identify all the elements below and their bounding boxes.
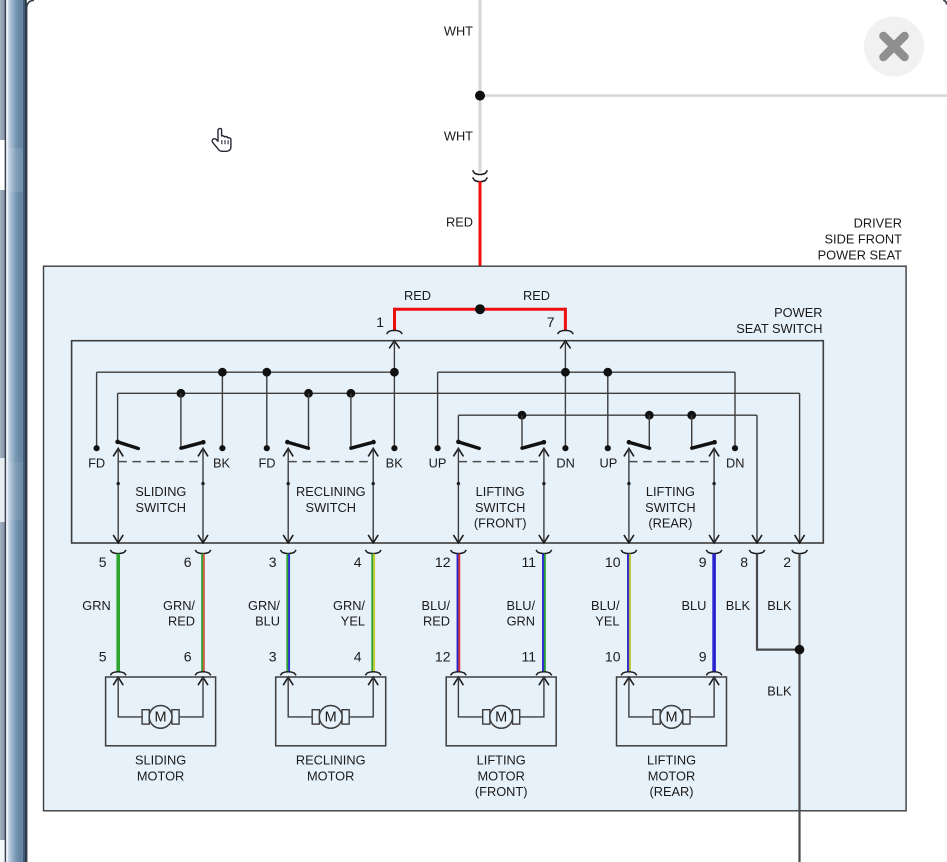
svg-text:10: 10 [605, 554, 621, 570]
terminal UP front [435, 445, 441, 451]
wire UP rear drop [607, 372, 609, 448]
reclining motor [276, 677, 386, 746]
connector pin 6 at motor [195, 672, 211, 676]
lifting motor rear [617, 677, 727, 746]
terminal BK sliding [219, 445, 225, 451]
svg-text:11: 11 [521, 649, 536, 665]
wire GRN pin 5 [116, 554, 120, 672]
wire FD reclining drop [266, 372, 268, 448]
reclining blade BK [351, 393, 376, 448]
junction bus E x692 [687, 411, 696, 420]
switch pole wire pin 6 [198, 448, 208, 543]
label RECLINING MOTOR [296, 753, 366, 784]
terminal DN front [562, 445, 568, 451]
svg-text:12: 12 [435, 554, 451, 570]
svg-text:SLIDING: SLIDING [135, 753, 186, 768]
sliding motor [106, 677, 216, 746]
svg-text:1: 1 [376, 314, 384, 330]
svg-text:M: M [325, 710, 337, 726]
svg-text:RED: RED [168, 614, 195, 629]
wire FD sliding drop [96, 372, 98, 448]
junction bus A x267 [262, 368, 271, 377]
junction bus B x308 [304, 389, 313, 398]
label LIFTING SWITCH (REAR) [645, 484, 695, 531]
svg-text:FD: FD [88, 456, 105, 471]
svg-text:BLU: BLU [255, 614, 280, 629]
label wire pin 6 [163, 598, 195, 629]
power seat switch box [72, 341, 824, 543]
svg-text:GRN/: GRN/ [248, 598, 280, 613]
svg-text:SLIDING: SLIDING [135, 484, 186, 499]
wire BLK pin 8 [757, 554, 800, 650]
wire BK sliding drop [221, 372, 223, 448]
wire pin 8 internal [756, 415, 758, 543]
switch pole wire pin 9 [709, 448, 719, 543]
wire DN rear drop [734, 372, 736, 448]
svg-text:M: M [665, 710, 677, 726]
lifting rear blade DN [692, 415, 717, 448]
svg-text:BLU/: BLU/ [591, 598, 620, 613]
linkage sliding switch [118, 461, 203, 463]
label wire pin 12 [422, 598, 451, 629]
wire RED bus to pin 1 [395, 308, 481, 311]
svg-text:10: 10 [605, 649, 621, 665]
svg-text:GRN/: GRN/ [163, 598, 195, 613]
junction BLK splice [795, 645, 805, 655]
label LIFTING MOTOR FRONT [475, 753, 528, 799]
svg-text:12: 12 [435, 649, 451, 665]
svg-text:BLK: BLK [767, 598, 792, 613]
svg-text:RED: RED [404, 288, 431, 303]
reclining blade FD [285, 393, 308, 448]
svg-text:BLK: BLK [726, 598, 751, 613]
bus C (UP/DN contacts) [438, 371, 735, 373]
svg-text:LIFTING: LIFTING [477, 753, 526, 768]
connector pin 8 under switch [749, 550, 765, 554]
connector pin 9 under switch [706, 550, 722, 554]
svg-text:MOTOR: MOTOR [477, 768, 524, 783]
svg-text:4: 4 [354, 649, 362, 665]
pin 1 entry wire [389, 341, 399, 349]
bus B (slide/recline common) [118, 392, 800, 394]
svg-text:RED: RED [446, 215, 473, 230]
lifting rear blade UP [627, 415, 650, 448]
svg-text:4: 4 [354, 554, 362, 570]
svg-text:DN: DN [556, 456, 574, 471]
wire BLU/RED pin 12 [458, 554, 460, 672]
mouse hand cursor [212, 128, 231, 151]
bus E (lift common) [458, 414, 757, 416]
svg-text:YEL: YEL [341, 614, 365, 629]
driver side front power seat component box [44, 266, 907, 811]
wire WHT vertical feed [479, 0, 482, 172]
wire GRN/BLU pin 3 [287, 554, 289, 672]
svg-text:5: 5 [99, 554, 107, 570]
label wire pin 4 [333, 598, 365, 629]
svg-text:3: 3 [269, 554, 277, 570]
junction bus A x222 [218, 368, 227, 377]
connector pin 5 under switch [110, 550, 126, 554]
label SLIDING MOTOR [135, 753, 186, 784]
connector pin 6 under switch [195, 550, 211, 554]
svg-text:POWER: POWER [774, 305, 822, 320]
svg-text:YEL: YEL [595, 614, 619, 629]
junction bus E x522 [518, 411, 527, 420]
wire RED bus to pin 7 [480, 308, 565, 311]
left window edge bar [0, 0, 27, 862]
svg-text:11: 11 [521, 554, 536, 570]
linkage lifting rear switch [629, 461, 714, 463]
label SLIDING SWITCH [135, 484, 186, 515]
white panel rounded corner border top-right [943, 0, 947, 4]
svg-text:(FRONT): (FRONT) [474, 516, 527, 531]
switch pole wire pin 10 [624, 448, 634, 543]
svg-text:BLU: BLU [681, 598, 706, 613]
svg-text:9: 9 [699, 649, 707, 665]
svg-text:GRN/: GRN/ [333, 598, 365, 613]
connector pin 12 at motor [451, 672, 467, 676]
connector pin 2 under switch [792, 550, 808, 554]
svg-text:SWITCH: SWITCH [475, 500, 525, 515]
switch pole wire pin 4 [368, 448, 378, 543]
connector pin 11 under switch [536, 550, 552, 554]
wire RED main [479, 181, 482, 309]
svg-text:GRN: GRN [82, 598, 110, 613]
svg-text:SWITCH: SWITCH [645, 500, 695, 515]
connector pin 4 under switch [365, 550, 381, 554]
white panel rounded corner border left [27, 0, 34, 862]
junction bus B x351 [347, 389, 356, 398]
connector pin 10 at motor [621, 672, 637, 676]
svg-text:WHT: WHT [444, 129, 473, 144]
label LIFTING SWITCH (FRONT) [474, 484, 527, 531]
label LIFTING MOTOR REAR [647, 753, 696, 799]
lifting motor front [446, 677, 556, 746]
label POWER SEAT SWITCH [736, 305, 822, 336]
bus A (FD/BK contacts) [97, 371, 395, 373]
svg-text:RECLINING: RECLINING [296, 484, 366, 499]
switch pole wire pin 12 [453, 448, 463, 543]
connector pin 12 under switch [451, 550, 467, 554]
wire BLK pin 2 to ground [798, 554, 800, 862]
pin 7 entry wire [560, 341, 570, 349]
svg-text:BK: BK [386, 456, 404, 471]
svg-text:SWITCH: SWITCH [306, 500, 356, 515]
wire BLU pin 9 [712, 554, 716, 672]
connector pin 3 at motor [280, 672, 296, 676]
junction bus C x608 [603, 368, 612, 377]
wire GRN/YEL pin 4 [372, 554, 374, 672]
svg-text:(REAR): (REAR) [649, 784, 693, 799]
svg-text:SWITCH: SWITCH [136, 500, 186, 515]
sliding blade BK [181, 393, 206, 448]
terminal UP rear [605, 445, 611, 451]
svg-text:UP: UP [429, 456, 447, 471]
svg-text:(FRONT): (FRONT) [475, 784, 528, 799]
wire pin 2 internal [799, 393, 801, 543]
label DRIVER SIDE FRONT POWER SEAT [818, 216, 903, 263]
junction red bus [475, 304, 485, 314]
lifting front blade DN [522, 415, 546, 448]
svg-text:WHT: WHT [444, 24, 473, 39]
linkage lifting front switch [458, 461, 544, 463]
wire BLU/YEL pin 10 [628, 554, 630, 672]
svg-text:M: M [495, 710, 507, 726]
svg-text:BLU/: BLU/ [422, 598, 451, 613]
svg-text:LIFTING: LIFTING [647, 753, 696, 768]
switch pole wire pin 11 [539, 448, 549, 543]
connector pin 9 at motor [706, 672, 722, 676]
svg-text:2: 2 [783, 554, 791, 570]
svg-text:(REAR): (REAR) [648, 516, 692, 531]
svg-text:RECLINING: RECLINING [296, 753, 366, 768]
svg-text:BK: BK [213, 456, 231, 471]
label RECLINING SWITCH [296, 484, 366, 515]
svg-text:3: 3 [269, 649, 277, 665]
svg-text:UP: UP [600, 456, 618, 471]
svg-text:SIDE FRONT: SIDE FRONT [825, 232, 903, 247]
svg-text:BLK: BLK [767, 684, 792, 699]
svg-text:SEAT SWITCH: SEAT SWITCH [736, 321, 822, 336]
switch pole wire pin 5 [113, 448, 123, 543]
svg-text:7: 7 [547, 314, 555, 330]
connector pin 10 under switch [621, 550, 637, 554]
junction top [475, 91, 485, 101]
close button [864, 17, 924, 77]
svg-text:GRN: GRN [507, 614, 535, 629]
terminal FD sliding [94, 445, 100, 451]
svg-text:RED: RED [423, 614, 450, 629]
label wire pin 3 [248, 598, 280, 629]
svg-text:RED: RED [523, 288, 550, 303]
terminal BK reclining [391, 445, 397, 451]
svg-text:LIFTING: LIFTING [476, 484, 525, 499]
linkage reclining switch [288, 461, 373, 463]
svg-text:MOTOR: MOTOR [307, 768, 354, 783]
svg-text:POWER SEAT: POWER SEAT [818, 248, 903, 263]
connector pin 3 under switch [280, 550, 296, 554]
svg-text:6: 6 [184, 554, 192, 570]
lifting front blade UP [456, 415, 479, 448]
junction bus E x649 [645, 411, 654, 420]
svg-text:MOTOR: MOTOR [648, 768, 695, 783]
label wire pin 10 [591, 598, 620, 629]
connector pin 4 at motor [365, 672, 381, 676]
junction bus C pin7 [561, 368, 570, 377]
label wire pin 11 [507, 598, 536, 629]
wire UP front drop [437, 372, 439, 448]
connector pin 5 at motor [110, 672, 126, 676]
junction bus A pin1 [390, 368, 399, 377]
terminal DN rear [732, 445, 738, 451]
svg-text:MOTOR: MOTOR [137, 768, 184, 783]
wire GRN/RED pin 6 [202, 554, 204, 672]
wire branch horizontal [480, 94, 947, 97]
svg-text:M: M [155, 710, 167, 726]
svg-text:6: 6 [184, 649, 192, 665]
connector pin 11 at motor [536, 672, 552, 676]
wire BLU/GRN pin 11 [543, 554, 545, 672]
svg-text:FD: FD [258, 456, 275, 471]
inline splice connector [473, 170, 488, 181]
svg-text:BLU/: BLU/ [507, 598, 536, 613]
switch pole wire pin 3 [283, 448, 293, 543]
svg-text:8: 8 [740, 554, 748, 570]
svg-text:5: 5 [99, 649, 107, 665]
svg-text:DRIVER: DRIVER [854, 216, 902, 231]
junction bus B x181 [177, 389, 186, 398]
terminal FD reclining [264, 445, 270, 451]
svg-text:LIFTING: LIFTING [646, 484, 695, 499]
svg-text:DN: DN [726, 456, 744, 471]
sliding blade FD [115, 393, 138, 448]
svg-text:9: 9 [699, 554, 707, 570]
